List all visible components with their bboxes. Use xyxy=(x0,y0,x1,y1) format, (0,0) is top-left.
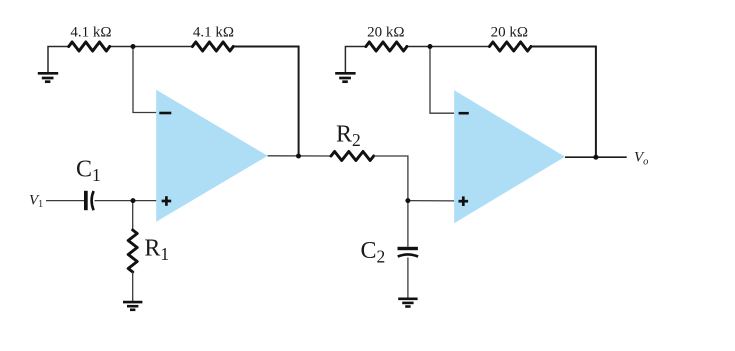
svg-text:20 kΩ: 20 kΩ xyxy=(491,24,528,40)
svg-text:20 kΩ: 20 kΩ xyxy=(367,24,404,40)
svg-text:4.1 kΩ: 4.1 kΩ xyxy=(193,24,234,40)
svg-text:4.1 kΩ: 4.1 kΩ xyxy=(70,24,111,40)
